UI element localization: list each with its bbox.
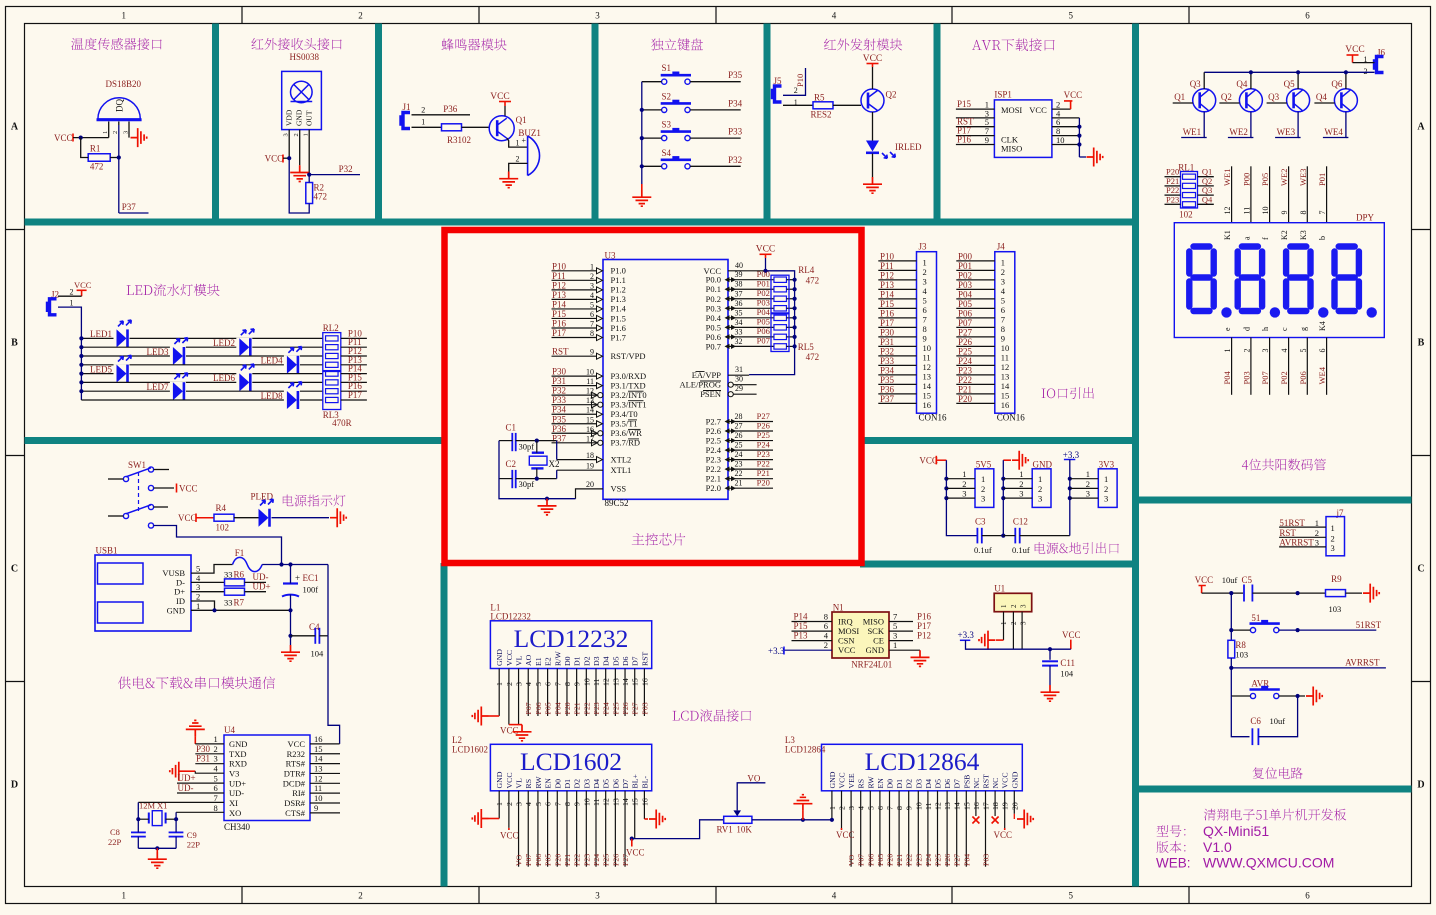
svg-text:P05: P05 [1260, 173, 1270, 186]
node junction [79, 336, 83, 340]
svg-text:8: 8 [824, 612, 828, 622]
svg-text:RST: RST [640, 651, 649, 666]
svg-text:P24: P24 [592, 854, 601, 866]
svg-text:P2.7: P2.7 [706, 417, 721, 427]
svg-text:A: A [11, 122, 19, 133]
wire U4 pin5 net UD+ [177, 782, 224, 784]
svg-text:R8: R8 [1235, 640, 1246, 650]
svg-text:4: 4 [214, 763, 219, 773]
RL1 resistor element 2 [1183, 183, 1196, 188]
U3 pin 28 P2.7 net P27 [728, 421, 773, 423]
RL1 resistor element 1 [1183, 174, 1196, 179]
svg-text:L2: L2 [452, 735, 462, 745]
svg-text:P12: P12 [552, 280, 566, 290]
svg-text:VCC: VCC [1345, 45, 1365, 55]
svg-text:VCC: VCC [505, 772, 514, 788]
wire VCC node [765, 258, 767, 271]
svg-text:P36: P36 [880, 384, 895, 394]
svg-text:P20: P20 [553, 854, 562, 866]
wire S3 to net P33 [690, 137, 741, 139]
ground right-rotated [1087, 148, 1103, 167]
svg-text:b: b [1318, 236, 1327, 240]
X mark NC pin18 [992, 817, 999, 824]
svg-text:2: 2 [1001, 267, 1005, 277]
U3 pin 14 P3.4/T0 net P34 [552, 413, 598, 415]
resistor R2 vertical [306, 183, 313, 204]
wire DPY pin 1 net P04 [1231, 338, 1233, 395]
node junction [79, 136, 83, 140]
j7 pin 1 net 51RST [1279, 526, 1326, 528]
wire SW1 bottom throw to power node [154, 526, 282, 565]
svg-text:D0: D0 [563, 656, 572, 666]
svg-text:d: d [1242, 327, 1251, 331]
svg-text:7: 7 [553, 682, 562, 686]
U3 right pin name overlines [696, 371, 705, 373]
svg-text:P27: P27 [953, 854, 962, 866]
svg-text:6: 6 [1001, 305, 1005, 315]
svg-text:D7: D7 [953, 779, 962, 789]
U3 pin 6 P1.5 net P15 [552, 317, 598, 319]
svg-text:U4: U4 [224, 725, 235, 735]
J3 pin 2 net P11 [878, 269, 916, 271]
ground right-rotated [1306, 687, 1322, 706]
svg-text:P12: P12 [917, 631, 931, 641]
wire pin2 with net P10 rotated [783, 68, 806, 95]
RL4 resistor element 5 [774, 315, 787, 320]
svg-text:CSN: CSN [838, 636, 855, 646]
wire emitter rail to J6 pin2 [1204, 71, 1374, 73]
svg-text:R6: R6 [234, 570, 245, 580]
svg-text:g: g [1299, 327, 1308, 331]
resistor R1 [88, 154, 110, 162]
svg-text:20: 20 [1010, 802, 1019, 810]
svg-text:14: 14 [923, 381, 932, 391]
wire 3V3 bus [1069, 460, 1071, 499]
svg-text:WE2: WE2 [1279, 169, 1289, 186]
svg-text:14: 14 [621, 678, 630, 686]
svg-text:P34: P34 [552, 405, 567, 415]
U3 pin 33 P0.6 net P06 [728, 336, 774, 338]
svg-text:P06: P06 [757, 326, 770, 336]
svg-text:38: 38 [735, 280, 743, 289]
svg-text:8: 8 [214, 803, 218, 813]
wire base net Q3 [1267, 102, 1287, 104]
svg-text:P25: P25 [611, 702, 620, 714]
U3 pin 36 P0.3 net P03 [728, 307, 774, 309]
wire emitter net WE4 [1323, 112, 1346, 138]
J4 pin 16 net P20 [956, 402, 995, 404]
svg-text:P2.2: P2.2 [706, 464, 721, 474]
svg-text:2: 2 [590, 272, 594, 281]
svg-text:Q3: Q3 [1190, 79, 1201, 89]
node junction [640, 164, 644, 168]
svg-text:6: 6 [544, 802, 553, 806]
svg-text:P20: P20 [958, 394, 973, 404]
svg-text:PSB: PSB [962, 775, 971, 789]
wire net P36 [412, 114, 471, 116]
RL resistor element 1 [326, 336, 339, 341]
ground [863, 177, 882, 193]
wire net Q1 [1198, 176, 1214, 178]
svg-text:2: 2 [516, 155, 520, 164]
J3 pin 4 net P13 [878, 288, 916, 290]
svg-text:6: 6 [1305, 891, 1310, 901]
svg-text:9: 9 [1280, 211, 1289, 215]
svg-text:NC: NC [991, 778, 1000, 789]
svg-text:12: 12 [1223, 207, 1232, 215]
svg-text:P06: P06 [534, 702, 543, 714]
svg-text:P2.4: P2.4 [706, 445, 722, 455]
svg-text:VCC: VCC [838, 645, 856, 655]
wire LED row 8 [81, 399, 322, 401]
wire R8 to AVRRST [1230, 658, 1232, 696]
svg-text:35: 35 [735, 308, 743, 317]
svg-text:GND: GND [1033, 459, 1053, 469]
wire net P22 [1165, 194, 1181, 196]
svg-text:15: 15 [1001, 390, 1010, 400]
node junction [1296, 70, 1300, 74]
wire VCC to leg1 [73, 137, 109, 139]
svg-text:VL: VL [515, 655, 524, 666]
title 独立键盘 [651, 38, 703, 50]
svg-text:P23: P23 [582, 854, 591, 866]
3V3 pin 1 [1070, 478, 1099, 480]
wire R9 to ground [1346, 592, 1363, 594]
svg-text:7: 7 [886, 806, 895, 810]
resistor R6 [225, 579, 245, 586]
svg-text:P25: P25 [934, 854, 943, 866]
svg-text:8: 8 [563, 802, 572, 806]
wire net P17 [341, 399, 367, 401]
svg-text:Q4: Q4 [1202, 194, 1213, 204]
node junction [279, 562, 283, 566]
wire emitter net WE1 [1181, 112, 1204, 138]
svg-text:1: 1 [121, 891, 126, 901]
svg-text:c: c [1280, 327, 1289, 331]
svg-text:33: 33 [224, 598, 233, 608]
svg-text:Q6: Q6 [1331, 79, 1342, 89]
svg-text:LCD1602: LCD1602 [520, 747, 622, 776]
node junction [793, 335, 797, 339]
svg-text:20: 20 [586, 480, 594, 489]
RL4 resistor element 7 [774, 334, 787, 339]
svg-text:P22: P22 [573, 854, 582, 866]
wire VCC to leg [283, 157, 289, 159]
U3 pin 21 P2.0 net P20 [728, 487, 773, 489]
svg-text:VCC: VCC [1064, 90, 1083, 100]
receiver lens circle with cross [291, 81, 313, 103]
svg-text:P22: P22 [905, 854, 914, 866]
U3 pin 7 P1.6 net P16 [552, 327, 598, 329]
svg-text:D: D [1417, 780, 1424, 791]
wire U4 pin8 XO to crystal [176, 811, 224, 813]
svg-text:R7: R7 [234, 598, 245, 608]
svg-text:22: 22 [735, 469, 743, 478]
svg-text:19: 19 [586, 462, 594, 471]
RL resistor element 8 [326, 397, 339, 402]
wire net Q4 [1198, 203, 1214, 205]
svg-text:P31: P31 [196, 754, 210, 764]
svg-text:2: 2 [824, 640, 828, 650]
svg-text:102: 102 [1179, 210, 1193, 220]
svg-text:9: 9 [314, 803, 318, 813]
svg-text:QX-Mini51: QX-Mini51 [1203, 823, 1269, 839]
wire emitter to LED [872, 112, 874, 141]
svg-text:4: 4 [832, 891, 837, 901]
svg-text:K3: K3 [1299, 230, 1308, 240]
svg-text:3: 3 [962, 489, 966, 499]
svg-text:8: 8 [1001, 324, 1005, 334]
svg-text:8: 8 [1299, 211, 1308, 215]
svg-text:9: 9 [905, 806, 914, 810]
svg-text:3: 3 [1020, 621, 1028, 625]
L3 pin1 junction to VO rail [830, 818, 834, 822]
svg-text:18: 18 [991, 802, 1000, 810]
svg-text:RW: RW [534, 776, 543, 789]
svg-text:D0: D0 [886, 779, 895, 789]
svg-text:RL5: RL5 [798, 342, 815, 352]
svg-text:VCC: VCC [54, 133, 73, 143]
svg-text:12: 12 [1001, 362, 1010, 372]
svg-text:D2: D2 [905, 779, 914, 789]
node junction [287, 156, 291, 160]
svg-text:P36: P36 [552, 424, 567, 434]
J3 pin 11 net P32 [878, 355, 916, 357]
svg-text:WWW.QXMCU.COM: WWW.QXMCU.COM [1203, 855, 1334, 871]
svg-text:P0.5: P0.5 [706, 322, 721, 332]
U3 pin 38 P0.1 net P01 [728, 288, 774, 290]
wire R2 bottom loop [289, 158, 309, 213]
svg-text:2: 2 [1010, 604, 1018, 608]
ISP1 right pins 4 6 8 10 bus [1052, 117, 1080, 119]
svg-text:37: 37 [735, 289, 743, 298]
svg-text:P24: P24 [924, 854, 933, 866]
svg-text:10: 10 [586, 368, 594, 377]
svg-text:16: 16 [972, 802, 981, 810]
svg-text:DSR#: DSR# [284, 798, 306, 808]
wire VCC to J6 pin1 [1353, 62, 1375, 64]
U3 pin 13 P3.3/INT1 net P33 [552, 404, 598, 406]
svg-text:11: 11 [924, 802, 933, 810]
svg-text:51RST: 51RST [1356, 620, 1382, 630]
teal vertical divider 2 [375, 24, 382, 226]
U3 pin 15 P3.5/T1 net P35 [552, 423, 598, 425]
svg-text:RTS#: RTS# [286, 759, 306, 769]
svg-text:P26: P26 [757, 420, 770, 430]
svg-text:2: 2 [505, 802, 514, 806]
svg-text:K1: K1 [1223, 230, 1232, 240]
ground right-rotated [1363, 584, 1379, 603]
svg-text:P16: P16 [917, 612, 932, 622]
svg-text:4: 4 [824, 631, 829, 641]
svg-text:9: 9 [590, 348, 594, 357]
svg-text:2: 2 [1315, 528, 1319, 538]
wire R6 net UD- [245, 581, 267, 583]
svg-text:24: 24 [735, 450, 743, 459]
wire VCC bus [945, 460, 947, 498]
svg-text:E2: E2 [544, 657, 553, 666]
svg-text:P07: P07 [857, 854, 866, 866]
resistor network RL3 [323, 372, 341, 410]
J4 pin 5 net P04 [956, 298, 995, 300]
svg-text:P22: P22 [958, 375, 972, 385]
wire DPY pin 4 net P02 [1288, 338, 1290, 395]
svg-text:V1.0: V1.0 [1203, 839, 1232, 855]
svg-text:P15: P15 [880, 299, 895, 309]
wire base net Q4 [1314, 102, 1334, 104]
svg-text:GND: GND [1010, 771, 1019, 788]
svg-text:1: 1 [893, 640, 897, 650]
svg-text:2: 2 [1364, 67, 1368, 76]
svg-text:1: 1 [1000, 604, 1008, 608]
svg-text:P06: P06 [534, 854, 543, 866]
teal vertical divider 4 [764, 24, 771, 226]
wire net P21 [1165, 185, 1181, 187]
resistor R3102 [442, 124, 462, 131]
LED LED4 [284, 355, 300, 374]
J3 pin 13 net P34 [878, 374, 916, 376]
svg-text:P36: P36 [443, 104, 458, 114]
svg-text:P15: P15 [552, 309, 567, 319]
RL4 resistor element 3 [774, 296, 787, 301]
svg-text:VCC: VCC [1195, 575, 1214, 585]
svg-text:P02: P02 [757, 288, 770, 298]
wire net P13 [341, 364, 367, 366]
svg-text:J1: J1 [403, 102, 411, 112]
svg-text:3: 3 [1331, 543, 1335, 553]
wire R4 to LED [234, 517, 259, 519]
svg-text:16: 16 [640, 678, 649, 686]
svg-text:P26: P26 [611, 854, 620, 866]
svg-text:7: 7 [553, 802, 562, 806]
wire net Q2 [1198, 185, 1214, 187]
wire net P11 [341, 346, 367, 348]
svg-text:1: 1 [1038, 474, 1042, 484]
svg-text:WE4: WE4 [1324, 127, 1343, 137]
wire U4 pin4 [195, 771, 224, 773]
svg-text:DCD#: DCD# [283, 778, 306, 788]
svg-text:P17: P17 [917, 621, 932, 631]
svg-text:472: 472 [806, 276, 820, 286]
svg-text:5: 5 [1068, 11, 1073, 21]
svg-text:2: 2 [293, 133, 300, 136]
svg-text:Q1: Q1 [1174, 92, 1185, 102]
svg-text:P30: P30 [196, 744, 211, 754]
wire DPY pin 2 net P03 [1250, 338, 1252, 395]
svg-text:C9: C9 [187, 830, 197, 840]
node junction [793, 344, 797, 348]
J4 pin 12 net P24 [956, 364, 995, 366]
svg-text:1: 1 [214, 734, 218, 744]
svg-text:10uf: 10uf [1222, 575, 1238, 585]
svg-text:WEB:: WEB: [1156, 856, 1191, 871]
svg-text:8: 8 [563, 682, 572, 686]
svg-text:P34: P34 [880, 365, 895, 375]
svg-text:WE3: WE3 [1277, 127, 1296, 137]
svg-text:23: 23 [735, 460, 743, 469]
L1 VCC and ground at pins 2-3 [509, 724, 522, 726]
svg-text:D5: D5 [602, 779, 611, 789]
svg-text:4: 4 [524, 802, 533, 806]
svg-text:1: 1 [1086, 469, 1090, 479]
svg-text:P26: P26 [958, 337, 973, 347]
svg-text:P33: P33 [728, 127, 743, 137]
svg-text:P25: P25 [757, 430, 770, 440]
svg-text:P11: P11 [880, 261, 894, 271]
ground flipped above U4 pin1 [186, 720, 205, 736]
J3 pin 8 net P17 [878, 326, 916, 328]
node junction [640, 108, 644, 112]
svg-text:7: 7 [1318, 211, 1327, 215]
5V5 pin 1 [946, 478, 975, 480]
node junction [1344, 70, 1348, 74]
J3 pin 16 net P37 [878, 402, 916, 404]
svg-text:C5: C5 [1242, 575, 1253, 585]
svg-text:P27: P27 [631, 702, 640, 714]
svg-text:14: 14 [1001, 381, 1010, 391]
svg-text:RST: RST [1279, 528, 1296, 538]
svg-text:P04: P04 [757, 307, 771, 317]
J3 pin 9 net P30 [878, 336, 916, 338]
wire SW1 pole feeds [108, 478, 123, 480]
svg-text:P37: P37 [122, 202, 137, 212]
node junction [793, 287, 797, 291]
RL resistor element 5 [326, 371, 339, 376]
wire crystal ground rail [138, 847, 176, 849]
svg-text:1: 1 [102, 131, 109, 134]
wire GND bus [1002, 460, 1004, 498]
wire net AVRRST [1231, 667, 1386, 669]
wire U4 pin7 XI to crystal [138, 801, 224, 803]
svg-text:1: 1 [1001, 257, 1005, 267]
svg-text:SW1: SW1 [128, 460, 146, 470]
svg-text:P00: P00 [757, 269, 770, 279]
svg-text:WE1: WE1 [1222, 169, 1232, 186]
U3 pin 23 P2.2 net P22 [728, 468, 773, 470]
teal vertical divider 3 [592, 24, 599, 226]
svg-text:6: 6 [1318, 349, 1327, 353]
seven-segment digit 3 [1290, 243, 1306, 249]
svg-text:XO: XO [229, 808, 241, 818]
label 电源指示灯 [283, 495, 346, 507]
svg-text:10: 10 [923, 343, 932, 353]
svg-text:VCC: VCC [179, 484, 198, 494]
svg-text:39: 39 [735, 270, 743, 279]
svg-text:22P: 22P [108, 837, 122, 847]
svg-text:2: 2 [112, 131, 119, 134]
node junction [793, 278, 797, 282]
svg-text:UD+: UD+ [229, 778, 246, 788]
svg-text:11: 11 [1242, 207, 1251, 215]
svg-text:XTL2: XTL2 [611, 454, 632, 464]
svg-text:Q5: Q5 [1284, 79, 1295, 89]
node junction [79, 389, 83, 393]
svg-text:P1.5: P1.5 [611, 313, 626, 323]
svg-text:LCD12864: LCD12864 [785, 745, 826, 755]
svg-text:3: 3 [923, 276, 927, 286]
svg-text:VO: VO [847, 854, 856, 866]
border column ticks [241, 7, 243, 24]
svg-text:4: 4 [524, 682, 533, 686]
svg-text:P01: P01 [757, 279, 770, 289]
svg-text:P07: P07 [1260, 371, 1270, 384]
svg-text:RES2: RES2 [811, 110, 832, 120]
svg-text:P32: P32 [339, 164, 353, 174]
highlight red box around MCU section [445, 230, 862, 563]
svg-text:31: 31 [735, 365, 743, 374]
wire bus to ground [641, 184, 643, 190]
svg-text:2: 2 [1331, 533, 1335, 543]
